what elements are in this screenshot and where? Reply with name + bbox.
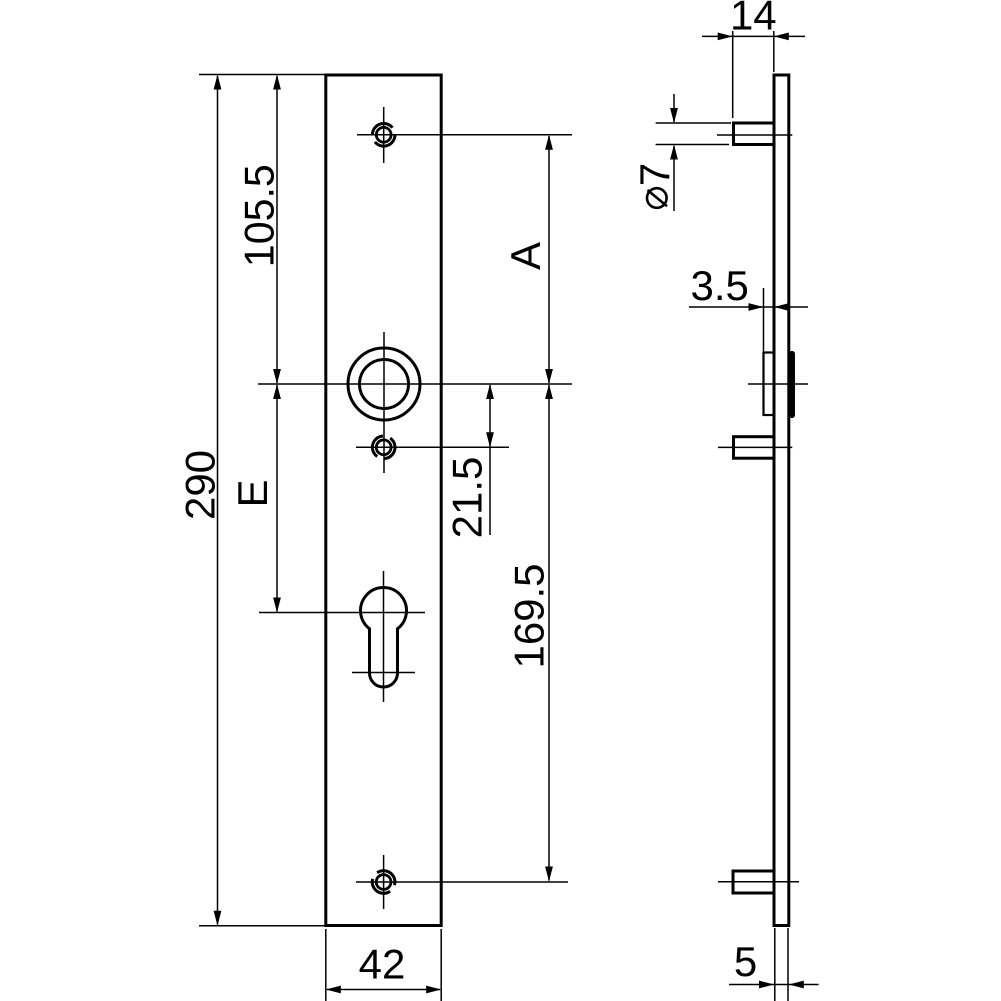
dimension 105.5 top arrow xyxy=(273,75,281,90)
dimension 5 extension line right xyxy=(787,928,789,1001)
top screw hole centerline horizontal (extension to A dim) xyxy=(357,134,572,136)
bottom screw hole centerline horizontal xyxy=(356,881,568,883)
dimension 290 top arrow xyxy=(214,75,222,90)
dimension 3.5 right arrow (pointing left) xyxy=(774,303,789,311)
dimension 21.5 bottom arrow xyxy=(486,432,494,447)
plate outline (front view rectangle) xyxy=(326,75,441,926)
dimension E line xyxy=(276,385,278,612)
svg-text:21.5: 21.5 xyxy=(444,457,491,539)
small screw hole centerline horizontal xyxy=(356,446,509,448)
dimension A bottom arrow xyxy=(545,369,553,384)
extension line bottom left xyxy=(199,925,326,927)
dimension 105.5 line xyxy=(276,76,278,383)
dimension 169.5 top arrow xyxy=(545,384,553,399)
dimension 5 line xyxy=(729,984,819,986)
middle fixing pin centerline xyxy=(718,446,792,448)
svg-text:7: 7 xyxy=(631,163,678,186)
bottom screw hole crosshair vertical xyxy=(383,855,385,909)
dimension 14 right arrow (pointing left) xyxy=(774,33,789,41)
dimension 5 left arrow (pointing right) xyxy=(759,981,774,989)
dimension 7 extension line lower xyxy=(656,144,729,146)
top screw hole crosshair vertical xyxy=(383,107,385,163)
dimension E bottom arrow xyxy=(273,598,281,613)
extension line top left xyxy=(199,74,326,76)
bottom screw hole symbol xyxy=(368,866,399,897)
bottom fixing pin xyxy=(733,871,774,893)
cylinder keyhole horizontal centerline xyxy=(259,612,425,614)
side plate bar xyxy=(774,75,789,926)
extension line bottom left of plate xyxy=(325,929,327,1001)
svg-text:290: 290 xyxy=(176,450,223,520)
middle collar tab (left) xyxy=(764,353,775,416)
handle hole outer circle xyxy=(348,348,420,420)
dimension A top arrow xyxy=(545,135,553,150)
dimension 169.5 line xyxy=(548,385,550,881)
dimension 290 bottom arrow xyxy=(214,911,222,926)
svg-text:169.5: 169.5 xyxy=(506,564,553,669)
svg-text:E: E xyxy=(229,479,276,507)
dimension 21.5 line (extended below for label) xyxy=(489,385,491,535)
dimension 169.5 bottom arrow xyxy=(545,867,553,882)
dimension 290 line xyxy=(217,76,219,925)
svg-text:5: 5 xyxy=(734,938,757,985)
extension line bottom right of plate xyxy=(440,929,442,1001)
cylinder keyhole (euro profile) outline xyxy=(361,588,407,687)
svg-text:3.5: 3.5 xyxy=(691,262,749,309)
dimension 7 lower line with up arrow xyxy=(673,146,675,211)
dimension 42 right arrow xyxy=(426,986,441,994)
dimension 3.5 left arrow (pointing right) xyxy=(749,303,764,311)
handle hole inner circle xyxy=(360,360,409,409)
dimension 3.5 extension line xyxy=(763,288,765,352)
dimension E top arrow xyxy=(273,384,281,399)
top fixing pin xyxy=(734,123,775,145)
diameter symbol slash xyxy=(648,190,668,206)
dimension 7 upper line with down arrow xyxy=(673,94,675,122)
top pin centerline xyxy=(717,134,792,136)
middle boss (right, filled) xyxy=(789,354,795,415)
dimension 42 left arrow xyxy=(326,986,341,994)
dimension 5 right arrow (pointing left) xyxy=(789,981,804,989)
dimension A line xyxy=(548,136,550,383)
middle centerline xyxy=(748,383,808,385)
dimension 5 extension line left xyxy=(774,928,776,1001)
dimension 3.5 line xyxy=(689,306,808,308)
svg-text:42: 42 xyxy=(359,941,406,988)
svg-text:105.5: 105.5 xyxy=(236,164,283,267)
svg-text:14: 14 xyxy=(730,0,777,39)
dimension 14 extension line left xyxy=(732,31,734,118)
small screw hole symbol xyxy=(368,432,399,463)
dimension 14 extension line right xyxy=(773,31,775,72)
svg-text:A: A xyxy=(502,242,549,270)
dimension 7 extension line upper xyxy=(656,122,731,124)
handle hole horizontal centerline xyxy=(258,383,572,385)
top screw hole symbol xyxy=(372,124,395,147)
dimension 105.5 bottom arrow xyxy=(273,369,281,384)
cylinder keyhole lower centerline xyxy=(352,672,415,674)
dimension 14 left arrow (pointing right) xyxy=(718,33,733,41)
dimension 42 line xyxy=(327,989,440,991)
handle hole vertical centerline xyxy=(383,332,385,473)
bottom pin centerline xyxy=(718,881,799,883)
diameter symbol circle xyxy=(647,188,667,208)
dimension 21.5 top arrow xyxy=(486,384,494,399)
cylinder keyhole vertical centerline xyxy=(383,571,385,702)
dimension 14 line xyxy=(702,35,805,37)
middle fixing pin xyxy=(734,437,775,459)
